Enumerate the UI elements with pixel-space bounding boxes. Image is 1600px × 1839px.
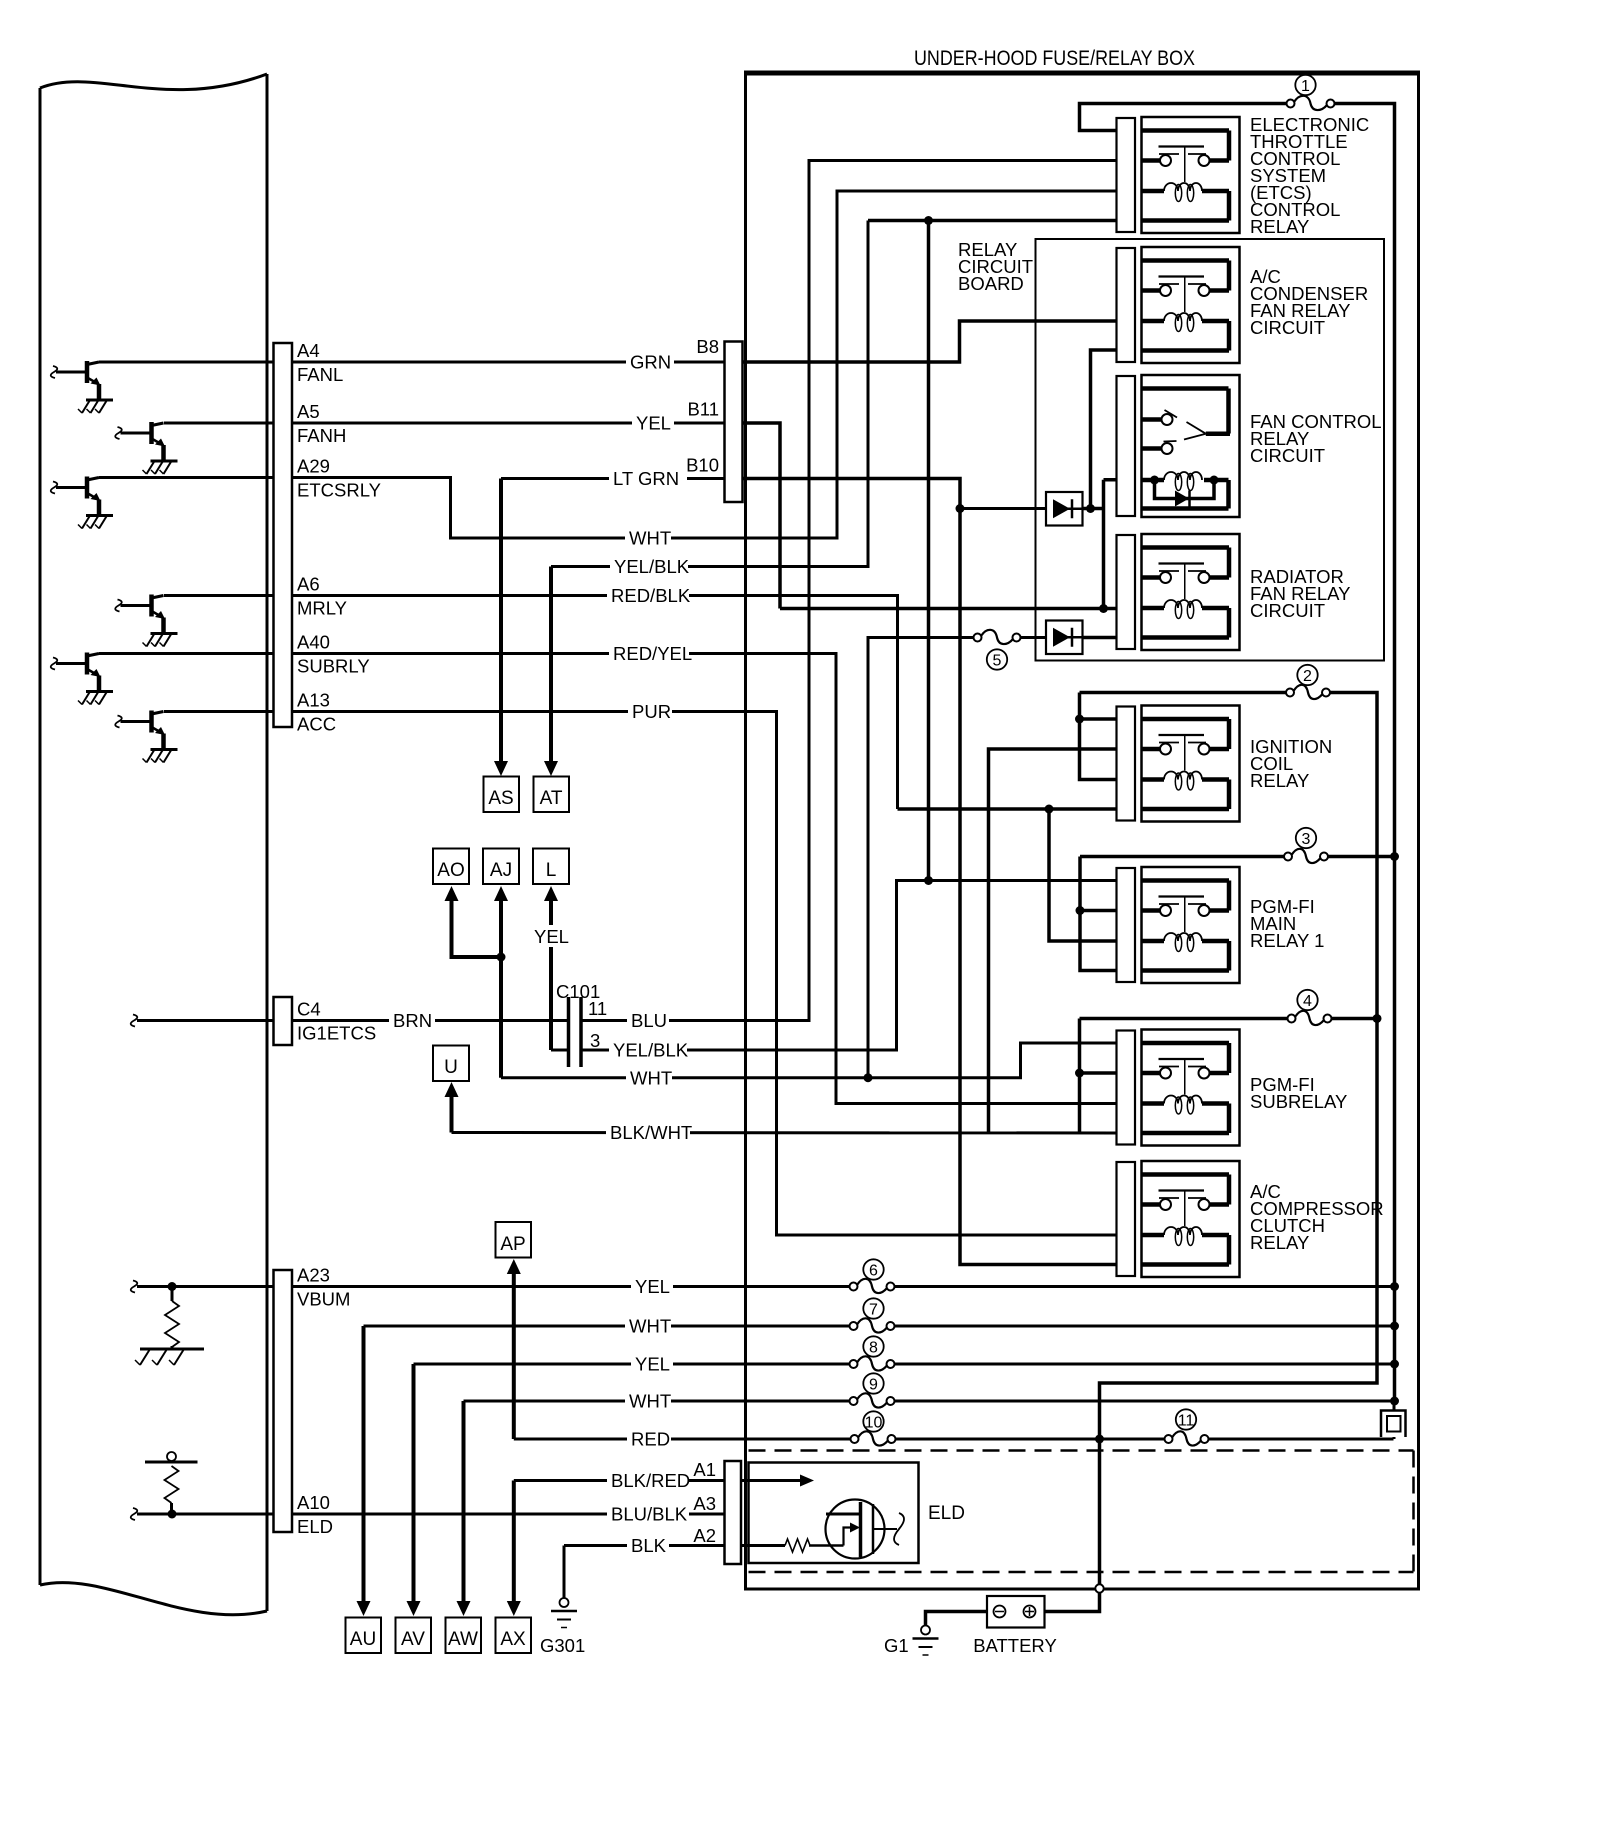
fuse 10 (851, 1411, 896, 1445)
ground under Q6 (ACC driver) (143, 750, 178, 763)
svg-text:YEL: YEL (636, 413, 671, 434)
svg-text:BOARD: BOARD (958, 273, 1024, 294)
relay U5 IGNITION COIL RELAY (1117, 706, 1240, 822)
fuse 3 (1284, 828, 1328, 863)
svg-text:ACC: ACC (297, 714, 336, 735)
svg-text:11: 11 (588, 998, 607, 1019)
connector bracket ECM pin C4 (274, 997, 293, 1045)
node fuse10 battery bus (1095, 1435, 1104, 1444)
wire battery negative to G1 (926, 1612, 988, 1627)
wire to AW (462, 1401, 466, 1603)
label YEL on L wire (532, 925, 572, 947)
svg-text:3: 3 (1302, 831, 1311, 848)
label LT GRN (609, 467, 687, 491)
ground under Q5 (SUBRLY driver) (78, 692, 113, 705)
fuse 9 (850, 1373, 895, 1407)
wire A4 FANL GRN from ECM to B8 (99, 361, 725, 364)
svg-text:YEL/BLK: YEL/BLK (613, 1040, 689, 1061)
ELD internal arrow (800, 1475, 814, 1487)
wire to AV (412, 1364, 416, 1603)
wire LT GRN B10 bus down to A/C compressor clutch relay row4 (743, 479, 1117, 1265)
relay U6 PGM-FI MAIN RELAY 1 (1117, 867, 1240, 983)
svg-text:L: L (546, 860, 557, 881)
svg-text:BLK: BLK (631, 1535, 667, 1556)
relay U3 FAN CONTROL RELAY CIRCUIT (1117, 375, 1240, 517)
wire WHT from AJ to PGM-FI subrelay row1 (501, 1043, 1117, 1078)
svg-text:3: 3 (590, 1030, 600, 1051)
wire WHT from AU to fuse 7 (364, 1325, 850, 1328)
svg-text:AP: AP (500, 1234, 525, 1255)
node fuse3 right (1390, 852, 1399, 861)
svg-text:FANH: FANH (297, 425, 346, 446)
label WHT (625, 526, 671, 550)
label BLK/RED (607, 1469, 689, 1493)
svg-text:AX: AX (500, 1629, 526, 1650)
ECM/PCM box (torn edges) (40, 74, 267, 1615)
wire fuse 2 left lead (1080, 691, 1286, 695)
wire to connector AT (549, 567, 553, 766)
svg-text:A23: A23 (297, 1265, 330, 1286)
connector L (533, 849, 569, 885)
svg-text:A3: A3 (693, 1493, 716, 1514)
svg-text:7: 7 (869, 1302, 878, 1319)
svg-text:11: 11 (1178, 1413, 1195, 1430)
wire to AX (BLK/RED) (512, 1481, 516, 1604)
wire fuse7 to right bus (895, 1325, 1395, 1328)
svg-text:WHT: WHT (629, 528, 671, 549)
wire fan control relay coil feed (1104, 478, 1117, 482)
svg-text:FANL: FANL (297, 364, 343, 385)
fuse 5 (974, 630, 1021, 670)
svg-text:UNDER-HOOD FUSE/RELAY BOX: UNDER-HOOD FUSE/RELAY BOX (914, 47, 1195, 70)
wire BLK/RED to ELD pin A1 (514, 1479, 725, 1482)
svg-text:AO: AO (437, 860, 464, 881)
svg-text:RED/BLK: RED/BLK (611, 585, 691, 606)
transistor Q3 (ETCSRLY driver) (51, 477, 101, 516)
svg-text:CIRCUIT: CIRCUIT (1250, 600, 1325, 621)
svg-text:A6: A6 (297, 574, 320, 595)
wire break squiggle at A10 (131, 1508, 138, 1520)
svg-text:AT: AT (540, 788, 563, 809)
wire fuse 3 left lead (1080, 855, 1284, 859)
svg-text:A29: A29 (297, 456, 330, 477)
svg-text:YEL: YEL (635, 1354, 670, 1375)
diode D2 (1046, 621, 1083, 655)
svg-text:PUR: PUR (632, 701, 671, 722)
wire fuse9 to right bus (895, 1400, 1395, 1403)
svg-text:MRLY: MRLY (297, 598, 347, 619)
wire A2 into ELD (741, 1544, 785, 1547)
label WHT 2 (626, 1066, 672, 1090)
svg-text:A4: A4 (297, 340, 320, 361)
transistor Q6 (ACC driver) (115, 711, 165, 750)
relay U4 RADIATOR FAN RELAY CIRCUIT (1117, 534, 1240, 650)
relay U7 PGM-FI SUBRELAY (1117, 1030, 1240, 1146)
wire RED from AP to fuse 10 (514, 1438, 850, 1441)
svg-text:6: 6 (869, 1263, 878, 1280)
wire A5 FANH YEL to B11 (164, 422, 725, 425)
wire right bus from fuse 1 feeding fuses 3 6 7 8 9 (1335, 104, 1395, 1402)
wire ignition coil relay row4 feed (898, 807, 1117, 811)
node subrelay row2 tap (1075, 1069, 1084, 1078)
connector AS (484, 777, 520, 813)
svg-text:AJ: AJ (490, 860, 512, 881)
svg-text:VBUM: VBUM (297, 1289, 350, 1310)
svg-text:G1: G1 (884, 1635, 909, 1656)
svg-text:ETCSRLY: ETCSRLY (297, 480, 381, 501)
wire D1 to A/C condenser fan relay row4 (1091, 350, 1117, 509)
svg-text:RED/YEL: RED/YEL (613, 643, 692, 664)
svg-text:WHT: WHT (629, 1316, 671, 1337)
wire battery bus from fuse 2 (1100, 693, 1378, 1589)
svg-text:BLU: BLU (631, 1010, 667, 1031)
wire YEL/BLK (AT branch) up bus (551, 221, 868, 567)
svg-text:BATTERY: BATTERY (973, 1635, 1057, 1656)
wire BLK to ELD pin A2 (564, 1544, 725, 1547)
relay U2 A/C CONDENSER FAN RELAY CIRCUIT (1117, 247, 1240, 363)
wire fuse6 to right bus (895, 1285, 1395, 1288)
wire from AO (445, 886, 459, 901)
svg-text:AW: AW (448, 1629, 478, 1650)
wire diode D2 to radiator fan relay row4 (1083, 636, 1117, 640)
wire fuse 4 to battery bus (1332, 1017, 1377, 1021)
svg-text:YEL/BLK: YEL/BLK (614, 556, 690, 577)
UNDER-HOOD FUSE/RELAY BOX outline (746, 73, 1419, 1589)
svg-text:CIRCUIT: CIRCUIT (1250, 445, 1325, 466)
wire A10 ELD BLU/BLK to pin A3 (137, 1513, 725, 1516)
connector C101 (569, 997, 582, 1067)
svg-text:U: U (444, 1057, 458, 1078)
label WHT 3 (625, 1314, 671, 1338)
node fuse7 right (1390, 1322, 1399, 1331)
node AO/AJ junction (497, 953, 506, 962)
connector bracket ECM pins A4-A13 (274, 343, 293, 727)
node WHT fuse5 tap (864, 1073, 873, 1082)
connector bracket B8/B11/B10 (725, 342, 743, 503)
ground under Q4 (MRLY driver) (143, 634, 178, 647)
svg-text:BLK/WHT: BLK/WHT (610, 1122, 692, 1143)
wire PGM-FI subrelay row2 feed (1080, 1071, 1117, 1075)
label BLK/WHT (606, 1121, 690, 1145)
label YEL (632, 411, 674, 435)
wire fuse 4 left lead (1080, 1017, 1288, 1021)
label BLU/BLK (607, 1502, 689, 1526)
wire from L (YEL) (544, 886, 558, 901)
svg-text:A13: A13 (297, 690, 330, 711)
connector AU (346, 1618, 382, 1654)
label PUR (628, 700, 672, 724)
svg-text:B10: B10 (686, 455, 719, 476)
wire into diode D1 (960, 507, 1046, 510)
wire fuse11 to current sensor (1209, 1438, 1394, 1441)
node ignition row1 tap (1075, 715, 1084, 724)
wire A40 SUBRLY RED/YEL to PGM-FI subrelay coil (99, 654, 1117, 1104)
wire GRN B8 to A/C condenser fan relay coil (743, 321, 1117, 362)
battery (987, 1596, 1045, 1628)
connector AJ (483, 849, 519, 885)
wire ETCS relay row4 feed (868, 219, 1117, 223)
node LT GRN to D1 (956, 504, 965, 513)
svg-text:5: 5 (993, 653, 1002, 670)
node ETCS row4 tap (924, 216, 933, 225)
svg-text:AU: AU (350, 1629, 376, 1650)
svg-text:BLU/BLK: BLU/BLK (611, 1504, 688, 1525)
current sensor (fuse 11) (1381, 1411, 1406, 1438)
connector AT (534, 777, 570, 813)
svg-text:8: 8 (869, 1340, 878, 1357)
svg-text:G301: G301 (540, 1635, 585, 1656)
relay U8 A/C COMPRESSOR CLUTCH RELAY (1117, 1161, 1240, 1277)
connector bracket ELD pins A1/A3/A2 (725, 1461, 742, 1564)
ELD MOSFET (785, 1500, 904, 1559)
svg-text:B8: B8 (696, 336, 719, 357)
svg-text:1: 1 (1301, 78, 1310, 95)
node fuse6 right (1390, 1282, 1399, 1291)
wire break squiggle at A23 (131, 1281, 138, 1293)
label RED (627, 1427, 671, 1451)
node ELD sensor tap (168, 1510, 177, 1519)
svg-text:CIRCUIT: CIRCUIT (1250, 317, 1325, 338)
fuse 6 (850, 1259, 895, 1293)
diode D1 (1046, 492, 1083, 526)
label BLK (627, 1534, 669, 1558)
wire fuse4 bus down to subrelay row4 (1078, 1019, 1082, 1134)
wire C4 IG1ETCS BRN to C101 pin 11 (137, 1019, 568, 1022)
connector bracket ECM pins A23/A10 (274, 1270, 293, 1532)
svg-text:ELD: ELD (928, 1503, 965, 1524)
svg-text:RED: RED (631, 1429, 670, 1450)
wire to connector AS (499, 479, 503, 766)
node radiator coil junction (1099, 604, 1108, 613)
svg-text:YEL: YEL (635, 1276, 670, 1297)
fuse 11 (1165, 1409, 1209, 1445)
wire through current sensor (1393, 1401, 1396, 1439)
wire BLK to ground G301 (563, 1546, 566, 1599)
connector U (433, 1046, 469, 1082)
ELD box (749, 1463, 919, 1564)
wire diode D1 output (1083, 507, 1104, 511)
wire bus to PGM-FI main relay coil (1049, 809, 1117, 941)
wire to AU (362, 1326, 366, 1603)
wire PGM-FI main relay row2 feed (1080, 909, 1117, 913)
wire A13 ACC PUR to A/C compressor clutch relay coil (164, 712, 1117, 1236)
connector AO (433, 849, 469, 885)
label RED/YEL (609, 642, 689, 666)
wire A6 MRLY RED/BLK down bus (164, 596, 898, 810)
wire break squiggle at C4 (131, 1015, 138, 1027)
wire bus from ETCS row4 down to PGM-FI main relay row1 (927, 221, 931, 881)
wire BLK/WHT from U to PGM-FI subrelay row4 (452, 1131, 1117, 1135)
wire from U (BLK/WHT) (445, 1082, 459, 1097)
wire YEL B11 down bus (743, 423, 781, 609)
ground under Q2 (FANH driver) (143, 461, 178, 474)
svg-text:IG1ETCS: IG1ETCS (297, 1023, 376, 1044)
wire from AJ (494, 886, 508, 901)
svg-text:A1: A1 (693, 1459, 716, 1480)
node ignition row4 tap (1045, 805, 1054, 814)
label WHT 4 (625, 1389, 671, 1413)
wire battery positive lead (1045, 1593, 1100, 1612)
connector AV (396, 1618, 432, 1654)
transistor Q5 (SUBRLY driver) (51, 653, 101, 692)
node fuse4 right (1373, 1014, 1382, 1023)
connector AP (496, 1222, 532, 1258)
wire fuse5 to diode D2 (1021, 636, 1046, 639)
wire fuse8 to right bus (895, 1363, 1395, 1366)
ground G301 (551, 1598, 577, 1628)
fuse 7 (850, 1298, 895, 1332)
connector AW (446, 1618, 482, 1654)
svg-text:C4: C4 (297, 999, 321, 1020)
label GRN (626, 350, 674, 374)
label YEL/BLK (610, 555, 688, 579)
svg-text:RELAY: RELAY (1250, 770, 1309, 791)
wire fuse3 bus to PGM-FI main relay row4 (1080, 857, 1117, 971)
relay U1 ELECTRONIC THROTTLE CONTROL SYSTEM (ETCS) CONTROL RELAY (1117, 117, 1240, 233)
connector AX (496, 1618, 532, 1654)
svg-text:A5: A5 (297, 401, 320, 422)
wire ETCS relay row1 to fuse 1 (1080, 104, 1287, 131)
svg-text:ELD: ELD (297, 1516, 333, 1537)
svg-text:A10: A10 (297, 1492, 330, 1513)
wire fuse10 to battery node (896, 1438, 1164, 1441)
svg-text:WHT: WHT (629, 1391, 671, 1412)
ground under Q1 (FANL driver) (78, 400, 113, 413)
node main relay row1 tap (924, 876, 933, 885)
resistor inside ECM at VBUM (165, 1287, 179, 1350)
fuse 2 (1286, 665, 1330, 699)
svg-text:9: 9 (869, 1377, 878, 1394)
svg-text:BRN: BRN (393, 1010, 432, 1031)
svg-text:LT GRN: LT GRN (613, 468, 679, 489)
label RED/BLK (607, 584, 689, 608)
wire A29 ETCSRLY WHT to ETCS relay coil (99, 191, 1117, 538)
transistor Q4 (MRLY driver) (115, 595, 165, 634)
node main relay row2 tap (1076, 906, 1085, 915)
svg-text:A2: A2 (693, 1525, 716, 1546)
wire fuse2 bus to ignition relay coil (1080, 693, 1117, 780)
dashed ELD compartment (749, 1451, 1414, 1573)
label BLU (627, 1009, 669, 1033)
svg-text:B11: B11 (687, 399, 719, 420)
ELD sense element inside ECM (145, 1452, 198, 1514)
wire bus up to ignition coil relay row2 (989, 749, 1117, 1133)
svg-text:A40: A40 (297, 632, 330, 653)
svg-text:AS: AS (488, 788, 513, 809)
label YEL/BLK 2 (609, 1038, 687, 1062)
transistor Q2 (FANH driver) (115, 422, 165, 461)
ground inside ECM below VBUM resistor (135, 1349, 204, 1365)
svg-text:2: 2 (1303, 668, 1312, 685)
svg-text:WHT: WHT (630, 1067, 672, 1088)
svg-text:RELAY: RELAY (1250, 1232, 1309, 1253)
wire D1 bus to fan control and radiator coils (1102, 480, 1106, 609)
wire WHT from AW to fuse 9 (464, 1400, 850, 1403)
wire fuse 3 to right bus (1329, 855, 1395, 859)
svg-text:RELAY 1: RELAY 1 (1250, 930, 1324, 951)
transistor Q1 (FANL driver) (51, 361, 101, 400)
svg-text:AV: AV (401, 1629, 425, 1650)
fuse 4 (1288, 990, 1332, 1025)
wire A23 VBUM YEL to fuse 6 (137, 1285, 849, 1288)
wire L YEL to C101 pin 3 (551, 1049, 568, 1052)
wire A1 into ELD (741, 1479, 800, 1482)
svg-text:SUBRELAY: SUBRELAY (1250, 1091, 1347, 1112)
wire ignition relay row1 feed (1080, 717, 1117, 721)
ground G1 (913, 1626, 939, 1656)
wire bus WHT up to fuse 5 (868, 638, 973, 1078)
wire YEL from AV to fuse 8 (414, 1363, 850, 1366)
fuse 1 (1287, 75, 1335, 110)
svg-text:10: 10 (865, 1415, 883, 1432)
svg-text:GRN: GRN (630, 352, 671, 373)
RELAY CIRCUIT BOARD outline (1036, 239, 1385, 661)
node D1 output (1086, 504, 1095, 513)
label YEL A23 (631, 1275, 673, 1299)
svg-text:RELAY: RELAY (1250, 216, 1309, 237)
fuse 8 (850, 1336, 895, 1370)
wire radiator fan relay coil feed (780, 607, 1117, 611)
wire LT GRN to B10 (AS branch) (501, 477, 725, 480)
svg-text:SUBRLY: SUBRLY (297, 656, 370, 677)
svg-text:4: 4 (1303, 993, 1312, 1010)
ground under Q3 (ETCSRLY driver) (78, 516, 113, 529)
node VBUM resistor tap (168, 1282, 177, 1291)
label YEL 3 (631, 1352, 673, 1376)
wire BLU from C101-11 up to ETCS relay row2 (582, 161, 1117, 1021)
junction bullet at box edge (1095, 1584, 1103, 1592)
wire to AP (RED) (507, 1259, 521, 1274)
label BRN (389, 1009, 435, 1033)
svg-text:YEL: YEL (534, 926, 569, 947)
node fuse8 right (1390, 1360, 1399, 1369)
wire YEL/BLK from C101-3 to PGM-FI main relay row1 (582, 881, 1117, 1051)
svg-text:BLK/RED: BLK/RED (611, 1470, 690, 1491)
node fuse9 right (1390, 1397, 1399, 1406)
